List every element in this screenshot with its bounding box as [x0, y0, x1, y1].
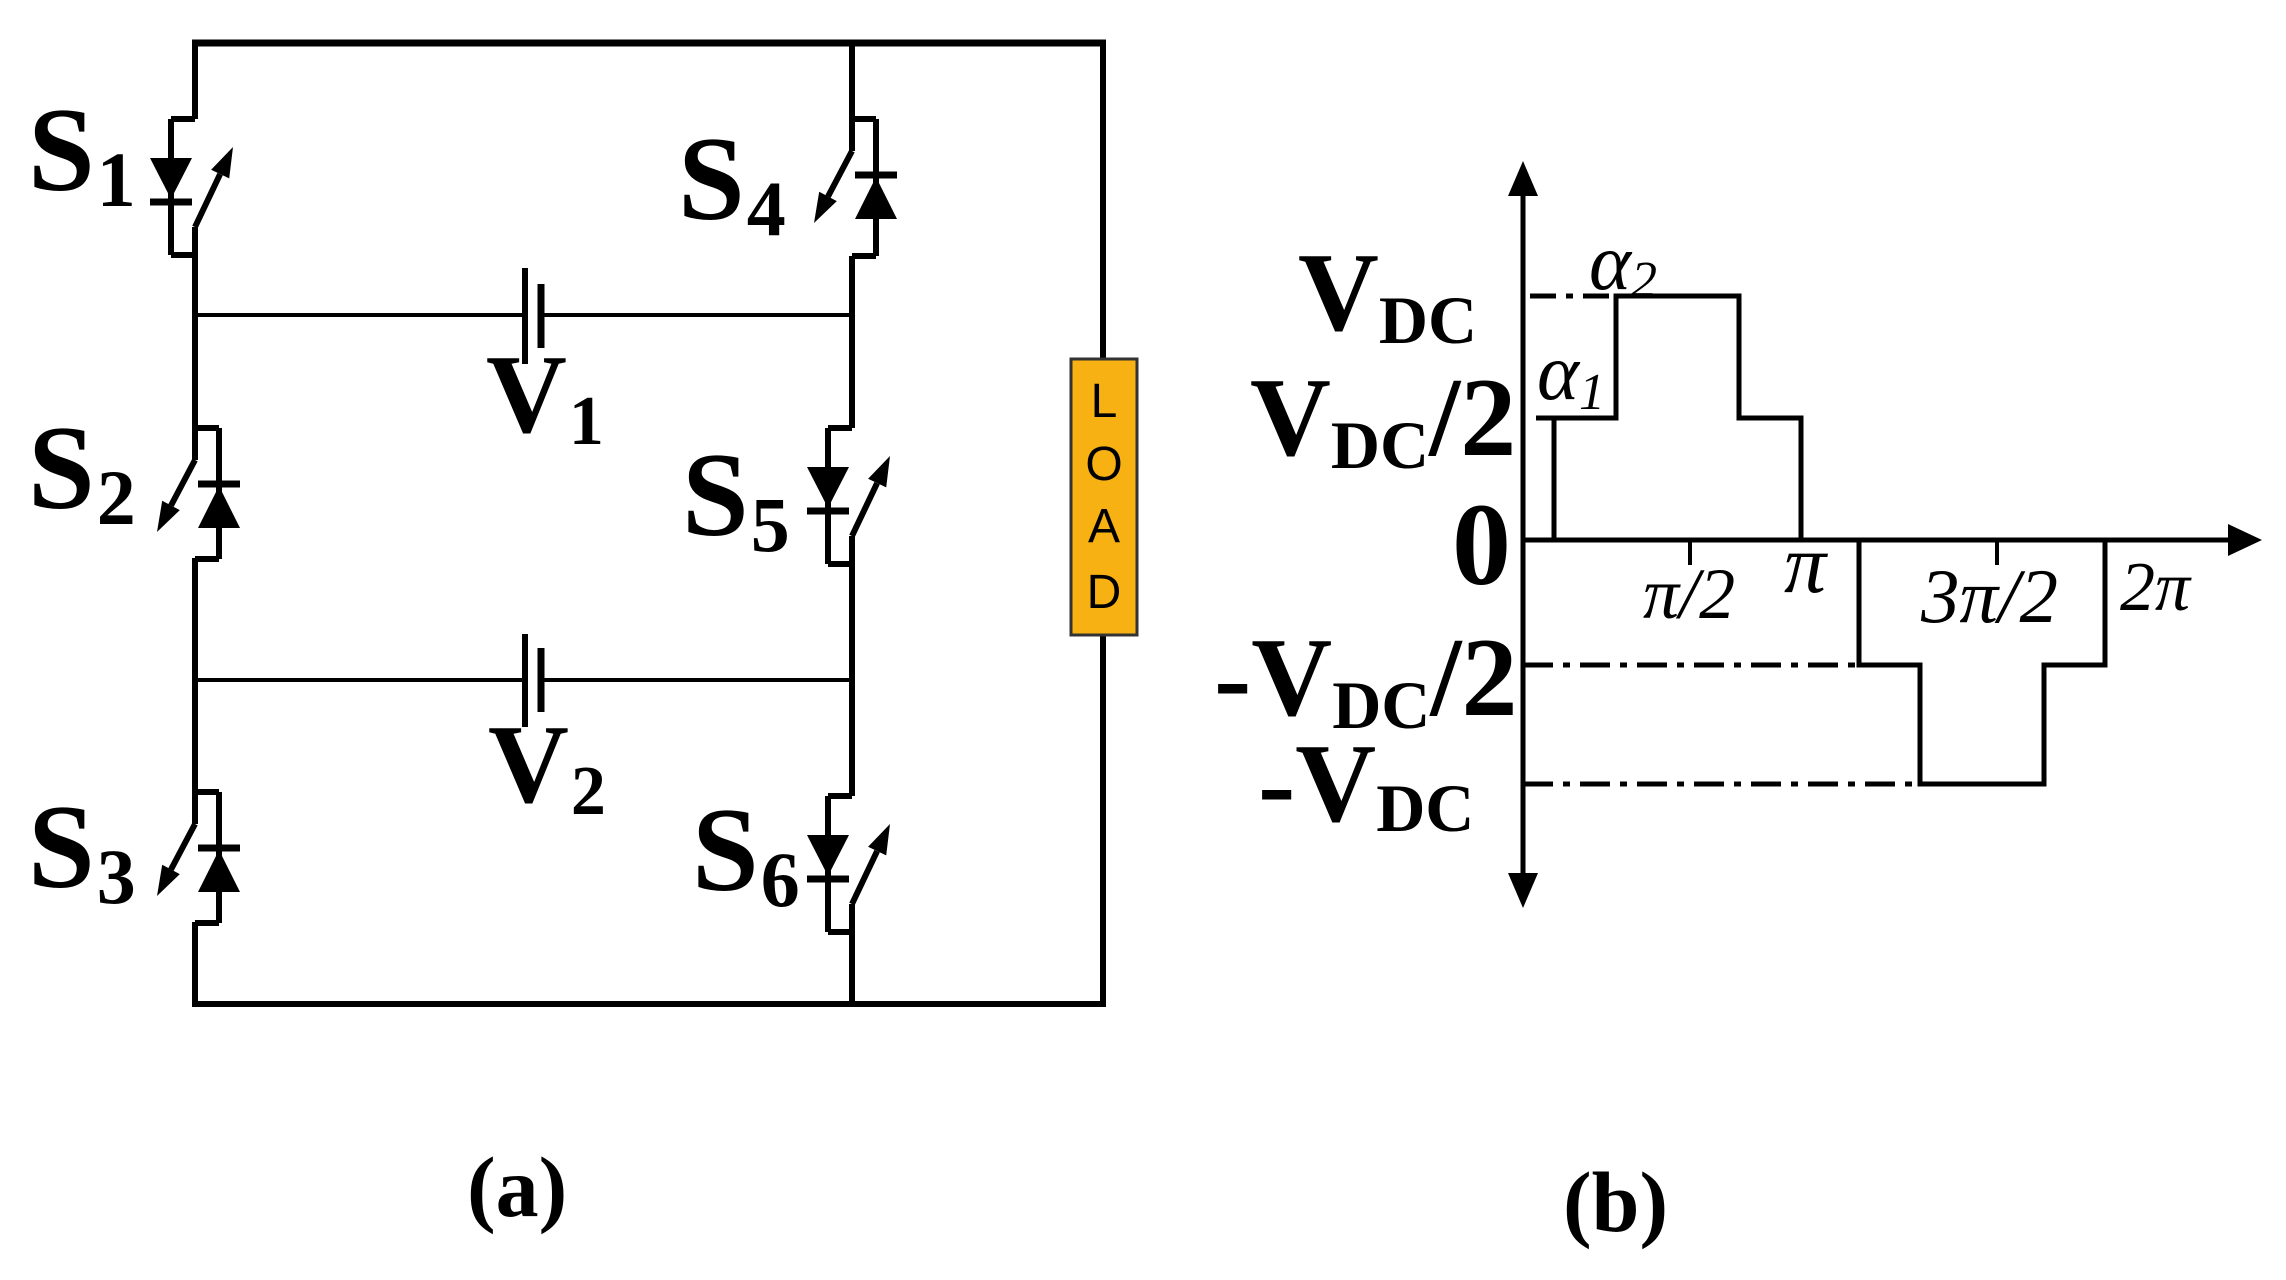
- battery V2 long plate: [522, 634, 528, 727]
- wire: right leg (load branch): [1100, 40, 1106, 1007]
- svg-text:π/2: π/2: [1643, 554, 1735, 634]
- wire: V1 branch: [195, 313, 852, 317]
- dash-dot level -VDC: [1523, 782, 1913, 787]
- wire: bottom bus: [192, 1001, 1106, 1007]
- switch S1 (diode + ideal switch arm): [150, 119, 233, 255]
- switch S5 (diode + ideal switch arm): [807, 428, 890, 564]
- svg-text:3π/2: 3π/2: [1920, 553, 2058, 639]
- dash-dot level VDC: [1530, 294, 1616, 299]
- y axis: [1521, 190, 1526, 878]
- switch S4 (diode + ideal switch arm): [814, 119, 897, 256]
- staircase waveform: [1554, 296, 2105, 784]
- tick 3pi/2: [1995, 540, 1999, 565]
- dash-dot level -VDC/2: [1523, 663, 1859, 668]
- y axis arrowhead top: [1508, 161, 1538, 196]
- wire: middle leg segments: [849, 40, 855, 1007]
- svg-text:(b): (b): [1563, 1154, 1668, 1250]
- battery V1 long plate: [522, 268, 528, 364]
- level marker stub at VDC/2: [1536, 416, 1556, 421]
- svg-text:π: π: [1784, 518, 1829, 611]
- wire: top bus: [192, 40, 1106, 47]
- x axis: [1523, 538, 2232, 543]
- y axis arrowhead bottom: [1508, 873, 1538, 908]
- switch S3 (diode + ideal switch arm): [157, 792, 240, 923]
- battery V1 short plate: [538, 284, 545, 348]
- load box: [1071, 359, 1137, 635]
- svg-text:0: 0: [1452, 479, 1511, 610]
- svg-text:O: O: [1085, 438, 1122, 491]
- switch S2 (diode + ideal switch arm): [157, 428, 240, 559]
- wire: V2 branch: [195, 678, 852, 682]
- tick pi/2: [1688, 540, 1692, 565]
- svg-text:L: L: [1091, 375, 1118, 428]
- svg-text:A: A: [1088, 500, 1120, 553]
- x axis arrowhead: [2228, 524, 2262, 556]
- switch S6 (diode + ideal switch arm): [807, 796, 890, 932]
- svg-text:2π: 2π: [2120, 549, 2192, 626]
- battery V2 short plate: [538, 648, 545, 712]
- wire: left leg segments: [192, 40, 198, 1007]
- svg-text:(a): (a): [467, 1139, 567, 1235]
- svg-text:D: D: [1087, 566, 1122, 619]
